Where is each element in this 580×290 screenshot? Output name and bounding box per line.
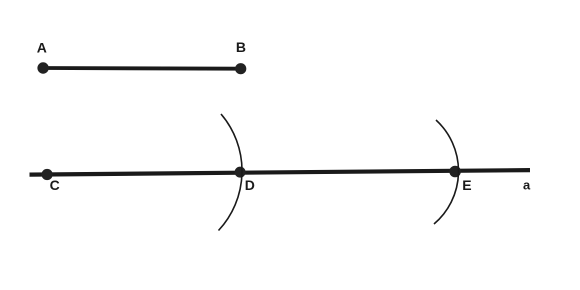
svg-text:B: B <box>236 39 246 55</box>
svg-text:A: A <box>37 40 47 56</box>
svg-text:E: E <box>462 177 471 193</box>
svg-text:C: C <box>50 177 60 193</box>
svg-text:D: D <box>245 177 255 193</box>
svg-text:a: a <box>523 178 531 193</box>
